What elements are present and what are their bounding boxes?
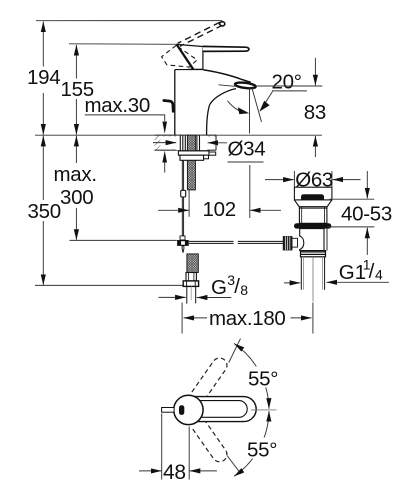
arrow max.30 below deck — [162, 151, 167, 173]
svg-text:194: 194 — [27, 66, 60, 89]
mounting nut — [180, 155, 204, 160]
cartridge cap line — [175, 69, 204, 71]
faucet body left edge — [174, 70, 176, 136]
extension line right (drain axis) — [312, 303, 314, 334]
extension line top (194 reference to raised lever tip) — [36, 20, 222, 22]
radial line 55 up — [229, 339, 241, 363]
horizontal actuating rod — [189, 241, 284, 243]
label 20 deg underline — [272, 90, 307, 92]
angle arc arrow — [228, 101, 245, 113]
dimension 83 arrows — [314, 58, 316, 86]
dimension line 194 — [42, 22, 44, 135]
inlet knurled nut — [283, 237, 292, 251]
svg-text:max.30: max.30 — [85, 94, 150, 117]
svg-text:300: 300 — [60, 186, 93, 209]
extension line body axis — [188, 427, 190, 480]
rotated lever dashed (down 55 deg) — [192, 419, 230, 464]
extension line O-ring bottom — [327, 226, 374, 228]
logo mark — [179, 405, 184, 415]
svg-text:40-53: 40-53 — [341, 203, 392, 226]
spout tip / aerator — [235, 82, 256, 90]
mounting hole white-out — [176, 136, 207, 150]
O-ring seal — [294, 223, 331, 228]
threaded stud knurled — [187, 135, 195, 190]
lever grip inner outline — [187, 401, 247, 418]
svg-text:55°: 55° — [248, 368, 278, 391]
white boxes for Ø34 arrows — [161, 137, 177, 150]
stream 20 deg slant line — [252, 88, 262, 122]
svg-text:max.180: max.180 — [209, 307, 286, 330]
svg-text:G: G — [211, 276, 227, 299]
label 55 down — [246, 438, 280, 459]
countertop cross-section hatched — [155, 135, 217, 150]
spout stub left — [162, 408, 175, 413]
swivel joint block — [177, 240, 189, 246]
deck surface extension line — [35, 134, 322, 136]
rod coupler — [181, 190, 186, 197]
svg-text:Ø34: Ø34 — [228, 138, 266, 161]
stream vertical reference line — [249, 88, 251, 134]
dimension line max.300 — [75, 136, 77, 240]
spout tip crease line — [219, 85, 236, 87]
drain body upper — [299, 207, 327, 224]
flex hose end knurled — [187, 254, 198, 273]
centerline right — [251, 409, 277, 411]
extension line 155 — [69, 43, 180, 46]
pop-up rod knob behind body — [164, 101, 173, 112]
rod end pin — [182, 246, 184, 253]
extension line bottom of hoses (350) — [35, 284, 183, 286]
drain body lower with side inlet — [300, 229, 324, 251]
dimension line 155 — [75, 45, 77, 135]
faucet body circle — [174, 395, 203, 424]
pop-up pull rod — [182, 160, 183, 240]
raised lever dashed outline — [178, 22, 223, 46]
dimension 48 arrows — [139, 470, 161, 472]
drain centerline — [312, 257, 314, 302]
connection thread pipe — [187, 286, 196, 303]
svg-text:350: 350 — [28, 200, 61, 223]
svg-text:55°: 55° — [247, 439, 277, 462]
svg-text:48: 48 — [163, 461, 186, 484]
svg-text:20°: 20° — [272, 71, 302, 94]
radial line 55 down — [227, 456, 241, 474]
flange taper — [294, 200, 332, 207]
rotated lever dashed (up 55 deg) — [192, 355, 230, 400]
mounting washer — [178, 151, 209, 155]
dimension Ø34 arrows — [153, 142, 176, 144]
leader max.30 — [85, 115, 165, 121]
dimension 40-53 arrows — [366, 171, 368, 198]
lever handle plan outline — [186, 397, 256, 422]
extension line max.300 bottom / pop-up rod level — [70, 239, 177, 241]
dimension max.180 arrows — [184, 317, 207, 319]
spout underside curve — [210, 89, 236, 105]
dimension arrows G1 1/4 thread — [284, 282, 300, 284]
extension line flange bottom — [329, 198, 374, 200]
svg-text:8: 8 — [240, 282, 248, 298]
dimension Ø63 extension lines — [293, 171, 295, 187]
svg-text:/: / — [369, 260, 375, 283]
extension line left (G3/8 axis) — [181, 303, 183, 334]
drain flange — [294, 187, 332, 200]
svg-text:83: 83 — [304, 101, 326, 124]
extension line at hose axis — [188, 190, 190, 217]
bottom ring nut — [301, 251, 326, 257]
dimension 102 arrows — [158, 209, 189, 211]
dimension Ø63 arrows — [265, 179, 294, 181]
label 55 up — [247, 367, 281, 388]
extension line at spout axis — [249, 165, 251, 218]
raised lever tip curl — [219, 22, 224, 26]
svg-text:102: 102 — [203, 198, 236, 221]
thread pipe G1 1/4 — [301, 257, 324, 290]
extension line spout stub — [161, 414, 163, 480]
G3/8 connection nut — [183, 281, 198, 287]
dimension arrows G3/8 thread — [159, 296, 186, 298]
label Ø34 underline — [228, 161, 264, 163]
arc 55 up — [234, 344, 269, 409]
arrow max.30 to deck top — [162, 122, 167, 134]
hose collar — [186, 273, 196, 281]
spout top curve — [203, 70, 250, 83]
inlet neck — [292, 238, 298, 247]
leader from 20 deg label — [266, 92, 273, 103]
pop-up plug cap — [301, 194, 324, 200]
svg-text:max.: max. — [54, 163, 97, 186]
lever blade — [203, 46, 249, 51]
extension line spout outlet level — [256, 85, 322, 87]
dimension line 350 — [42, 136, 44, 285]
svg-text:4: 4 — [375, 267, 383, 283]
arc 55 down — [234, 411, 269, 476]
body right edge — [207, 105, 210, 136]
shank tube through deck — [180, 135, 199, 151]
lever handle body — [177, 44, 203, 69]
